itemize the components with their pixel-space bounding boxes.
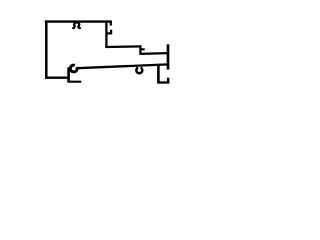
channel lip B bbox=[167, 78, 170, 84]
wire top wall bbox=[45, 20, 112, 22]
left foot of screw port U1 bbox=[72, 27, 75, 29]
step 1 vertical bbox=[139, 45, 141, 54]
right foot of screw port U1 bbox=[78, 27, 81, 29]
lower shelf bbox=[140, 52, 168, 55]
gap of screw port U1 bbox=[76, 26, 78, 29]
sloped bottom surface bbox=[77, 64, 168, 68]
screw port P1 (bottom-left ring) bbox=[70, 65, 77, 72]
gap of screw port P2 bbox=[138, 66, 141, 69]
step 1 ledge bbox=[140, 48, 145, 50]
bottom-left floor bbox=[45, 76, 69, 78]
foot wall D bbox=[67, 67, 70, 82]
drip wall A bbox=[157, 64, 160, 83]
left wall bbox=[45, 20, 48, 78]
gasket groove stub bbox=[110, 30, 112, 34]
channel floor bbox=[157, 81, 169, 83]
gap of screw port P1 bbox=[75, 65, 77, 67]
lower flange bbox=[68, 81, 81, 83]
right rib C bbox=[167, 44, 170, 69]
mid sloped shelf bbox=[105, 45, 141, 48]
mid wall vertical bbox=[105, 21, 107, 48]
screw port U1 (top omega ring) bbox=[74, 22, 79, 27]
gasket groove bottom bbox=[106, 32, 112, 34]
screw port P2 (bottom-mid ring) bbox=[136, 67, 142, 73]
node top-right lip bbox=[110, 21, 112, 26]
